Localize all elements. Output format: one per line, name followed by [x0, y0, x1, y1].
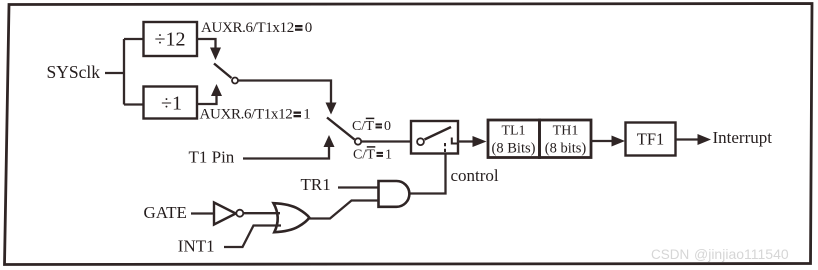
svg-text:÷12: ÷12	[155, 29, 186, 51]
wire T1 Pin with arrow	[243, 135, 335, 159]
svg-text:C/T: C/T	[353, 148, 375, 163]
switch SW1 clock select	[214, 64, 238, 84]
svg-text:T1 Pin: T1 Pin	[189, 148, 235, 167]
svg-text:1: 1	[303, 107, 311, 123]
wire OR gate to AND gate	[309, 201, 378, 219]
svg-text:TL1: TL1	[501, 124, 525, 139]
svg-text:Interrupt: Interrupt	[713, 128, 773, 147]
wire SYSclk to branch	[105, 72, 124, 74]
label C/T=1	[353, 147, 392, 163]
wire branch vertical	[123, 39, 125, 105]
svg-text:TH1: TH1	[553, 124, 579, 139]
svg-text:CSDN: CSDN	[651, 247, 689, 262]
divider box /1	[144, 87, 198, 119]
svg-text:control: control	[451, 166, 499, 185]
wire GATE to inverter	[191, 212, 214, 214]
wire INT1 to OR gate	[224, 226, 281, 248]
label AUXR.6/T1x12=1	[200, 107, 311, 123]
and-gate U1	[379, 181, 410, 207]
svg-text:0: 0	[305, 20, 313, 36]
svg-text:AUXR.6/T1x12: AUXR.6/T1x12	[201, 20, 294, 36]
svg-text:(8 bits): (8 bits)	[545, 141, 587, 157]
wire control from AND gate	[409, 154, 446, 194]
switch SW2 C/T select	[327, 118, 361, 145]
wire TH1 to TF1 with arrow	[591, 136, 625, 147]
wire /12 output with arrow	[197, 39, 221, 60]
label C/T=0	[352, 118, 391, 134]
label AUXR.6/T1x12=0	[201, 20, 312, 36]
control switch box	[411, 121, 458, 154]
svg-text:÷1: ÷1	[161, 93, 182, 115]
wire SW1 to C/T switch with arrow	[238, 81, 336, 115]
register TL1 (8 Bits)	[488, 120, 540, 158]
svg-text:INT1: INT1	[178, 237, 215, 256]
wire TR1 to AND gate	[338, 186, 378, 188]
svg-text:@jinjiao111540: @jinjiao111540	[694, 246, 789, 262]
inverter U3	[214, 203, 243, 225]
wire branch to divider /12	[124, 38, 143, 40]
svg-text:GATE: GATE	[144, 203, 187, 222]
wire inverter to OR gate	[244, 212, 281, 214]
divider box /12	[144, 22, 198, 56]
wire branch to divider /1	[124, 103, 143, 105]
svg-text:AUXR.6/T1x12: AUXR.6/T1x12	[200, 107, 293, 123]
wire control switch to TL1 with arrow	[458, 136, 487, 147]
svg-text:TF1: TF1	[637, 130, 665, 149]
register TH1 (8 bits)	[540, 120, 592, 158]
or-gate U2	[274, 203, 310, 232]
svg-text:C/T: C/T	[352, 119, 374, 134]
register TF1	[626, 123, 676, 156]
wire TF1 to Interrupt with arrow	[676, 134, 712, 145]
svg-text:TR1: TR1	[301, 175, 331, 194]
svg-text:0: 0	[384, 119, 391, 134]
svg-text:1: 1	[385, 148, 392, 163]
wire /1 output with arrow	[197, 84, 222, 104]
wire SW2 to control switch	[361, 140, 411, 142]
svg-text:SYSclk: SYSclk	[47, 62, 101, 82]
svg-text:(8 Bits): (8 Bits)	[492, 141, 536, 157]
